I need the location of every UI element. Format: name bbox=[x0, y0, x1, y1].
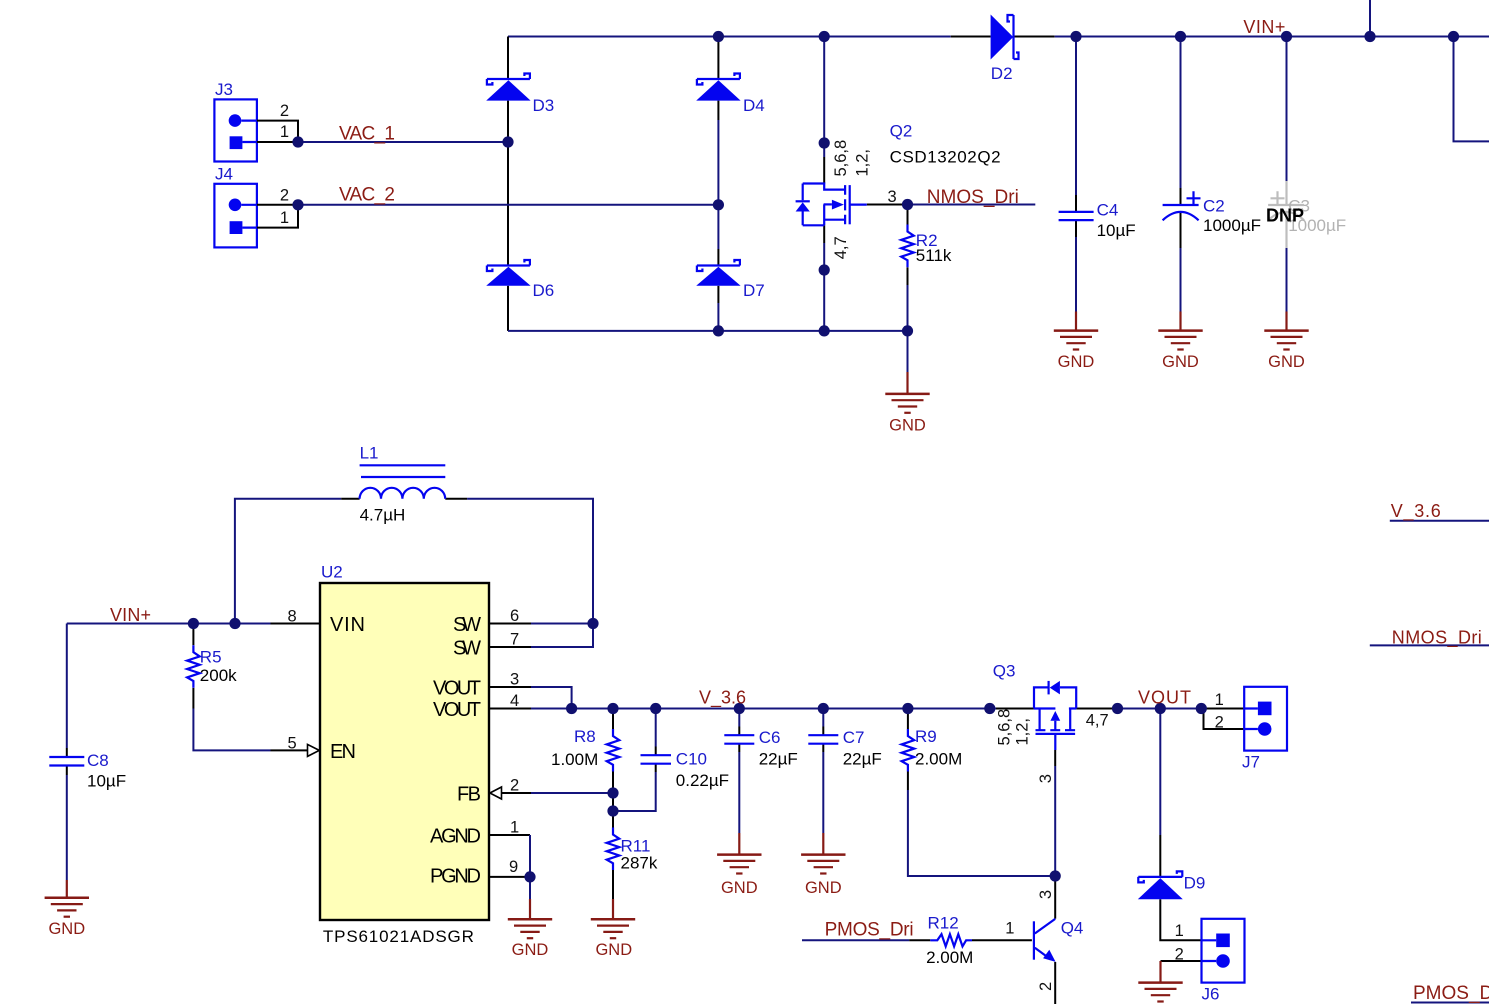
wire C4 column bbox=[1075, 37, 1077, 331]
wire Q3 gate column bbox=[1054, 750, 1056, 876]
wire VIN+ corner to right edge bbox=[1454, 37, 1489, 142]
node VIN L1 bbox=[229, 618, 240, 629]
wire PGND pin 9 bbox=[489, 876, 530, 878]
wire C6 column bbox=[738, 709, 740, 855]
node SW L1 bbox=[587, 618, 598, 629]
connector J3 bbox=[214, 99, 257, 161]
wire GND bus stub bbox=[907, 331, 909, 394]
wire Q2 drain column bbox=[823, 37, 825, 184]
wire AGND pin 1 bbox=[489, 835, 530, 919]
svg-text:GND: GND bbox=[889, 416, 926, 434]
capacitor C7 bbox=[808, 735, 838, 744]
node VOUT Q3 bbox=[1112, 703, 1123, 714]
svg-text:22µF: 22µF bbox=[759, 750, 798, 769]
svg-text:D4: D4 bbox=[743, 96, 765, 115]
svg-text:GND: GND bbox=[1162, 353, 1199, 371]
svg-text:287k: 287k bbox=[621, 853, 658, 872]
wire VOUT pin 3 jog bbox=[489, 687, 572, 709]
node V36 R8 bbox=[607, 703, 618, 714]
svg-text:4: 4 bbox=[510, 692, 519, 710]
node VAC_2 at J4 bbox=[292, 199, 303, 210]
capacitor C6 bbox=[724, 735, 754, 744]
svg-text:EN: EN bbox=[330, 741, 356, 763]
svg-text:SW: SW bbox=[453, 637, 481, 659]
resistor R8 bbox=[607, 729, 620, 772]
svg-text:Q4: Q4 bbox=[1061, 919, 1084, 938]
svg-text:1.00M: 1.00M bbox=[551, 750, 598, 769]
node Q2 drain bbox=[819, 137, 830, 148]
svg-text:D6: D6 bbox=[533, 281, 555, 300]
inductor L1 bbox=[360, 465, 446, 499]
wire C2 column bbox=[1180, 37, 1182, 331]
svg-text:5: 5 bbox=[288, 734, 297, 752]
node top bus C3 bbox=[1281, 31, 1292, 42]
ground GND (bus) bbox=[885, 394, 929, 413]
svg-text:0.22µF: 0.22µF bbox=[676, 771, 729, 790]
node VOUT34 bbox=[566, 703, 577, 714]
svg-text:4,7: 4,7 bbox=[832, 236, 850, 259]
svg-text:Q2: Q2 bbox=[890, 121, 913, 140]
svg-text:VOUT: VOUT bbox=[1138, 687, 1191, 707]
wire Q4 collector stub bbox=[1054, 876, 1056, 919]
wire bridge left column bbox=[507, 37, 509, 331]
svg-text:R8: R8 bbox=[574, 727, 596, 746]
wire Q4 emitter bbox=[1054, 962, 1056, 1004]
ground GND (C7) bbox=[801, 855, 845, 874]
node V36 R9 bbox=[902, 703, 913, 714]
svg-text:C7: C7 bbox=[843, 728, 865, 747]
svg-text:R5: R5 bbox=[200, 648, 222, 667]
node bus Q2 bbox=[819, 325, 830, 336]
wire J3 pin2 bbox=[257, 121, 298, 142]
ground GND (C3) bbox=[1264, 331, 1308, 350]
svg-text:GND: GND bbox=[48, 920, 85, 938]
wire VIN+ top bus bbox=[508, 36, 1489, 38]
transistor Q3 bbox=[1034, 681, 1076, 750]
svg-text:PMOS_Dri: PMOS_Dri bbox=[1413, 983, 1489, 1004]
node top bus D4 bbox=[713, 31, 724, 42]
svg-text:2: 2 bbox=[1037, 982, 1055, 991]
node top bus C4 bbox=[1070, 31, 1081, 42]
capacitor C3 (DNP) bbox=[1268, 191, 1304, 220]
svg-text:511k: 511k bbox=[916, 246, 952, 265]
node FB bbox=[607, 787, 618, 798]
wire R9 branch bbox=[908, 709, 1055, 877]
node VIN R5 bbox=[188, 618, 199, 629]
ground GND (PGND) bbox=[508, 919, 552, 938]
diode D6 bbox=[486, 260, 530, 286]
svg-text:8: 8 bbox=[288, 608, 297, 626]
node top bus Q2 bbox=[819, 31, 830, 42]
wire net VAC_2 bbox=[298, 204, 718, 206]
svg-text:1: 1 bbox=[280, 123, 289, 141]
svg-text:10µF: 10µF bbox=[87, 772, 126, 791]
svg-text:NMOS_Dri: NMOS_Dri bbox=[927, 187, 1019, 208]
svg-text:VOUT: VOUT bbox=[433, 677, 481, 699]
capacitor C10 bbox=[641, 755, 672, 764]
resistor R12 bbox=[930, 934, 972, 946]
svg-text:9: 9 bbox=[509, 858, 518, 876]
node VAC_1 at bridge bbox=[502, 136, 513, 147]
svg-text:R9: R9 bbox=[915, 727, 937, 746]
node top bus riser bbox=[1364, 31, 1375, 42]
wire net V_3.6 bbox=[489, 708, 1034, 710]
node VOUT J7 bbox=[1196, 703, 1207, 714]
diode D4 bbox=[696, 74, 740, 101]
capacitor C4 bbox=[1059, 212, 1094, 220]
svg-text:6: 6 bbox=[510, 607, 519, 625]
svg-text:1: 1 bbox=[1005, 920, 1014, 938]
svg-text:GND: GND bbox=[805, 879, 842, 897]
diode D7 bbox=[696, 260, 740, 286]
svg-text:1,2,: 1,2, bbox=[853, 149, 871, 177]
wire net NMOS_Dri bbox=[867, 204, 1036, 206]
ground GND (C2) bbox=[1158, 331, 1202, 350]
node top bus corner bbox=[1448, 31, 1459, 42]
svg-text:L1: L1 bbox=[360, 444, 379, 463]
diode D3 bbox=[486, 74, 530, 101]
wire J7 pin2 bbox=[1204, 709, 1245, 730]
svg-text:V_3.6: V_3.6 bbox=[1391, 501, 1441, 522]
node VAC_2 at bridge bbox=[713, 199, 724, 210]
transistor Q4 bbox=[1034, 919, 1056, 962]
svg-text:NMOS_Dri: NMOS_Dri bbox=[1392, 627, 1482, 648]
wire J4 pin1 bbox=[257, 205, 298, 228]
wire bridge right column bbox=[717, 37, 719, 331]
node bus D7 bbox=[713, 325, 724, 336]
svg-text:D9: D9 bbox=[1184, 873, 1206, 892]
svg-text:R12: R12 bbox=[928, 913, 959, 932]
node bus R2 bbox=[902, 325, 913, 336]
svg-text:VIN+: VIN+ bbox=[110, 605, 151, 625]
svg-text:J4: J4 bbox=[215, 164, 233, 183]
wire C10 column bbox=[613, 709, 656, 812]
op-amp U2 body (IC TPS61021ADSGR) bbox=[320, 583, 489, 920]
svg-text:VIN: VIN bbox=[330, 614, 365, 636]
resistor R9 bbox=[902, 729, 915, 772]
wire net PMOS_Dri right flag bbox=[1411, 1002, 1489, 1004]
capacitor C8 bbox=[49, 757, 84, 766]
svg-text:2.00M: 2.00M bbox=[915, 750, 962, 769]
node V36 C7 bbox=[818, 703, 829, 714]
wire J4 pin2 bbox=[257, 204, 298, 206]
wire C7 column bbox=[822, 709, 824, 855]
svg-text:5,6,8: 5,6,8 bbox=[995, 709, 1013, 746]
wire net NMOS_Dri right flag bbox=[1370, 644, 1489, 646]
wire Q2 source column bbox=[823, 225, 825, 331]
ground GND (C4) bbox=[1054, 331, 1098, 350]
svg-text:1000µF: 1000µF bbox=[1203, 216, 1261, 235]
svg-text:Q3: Q3 bbox=[993, 661, 1016, 680]
pin EN input triangle bbox=[308, 744, 320, 756]
wire net PMOS_Dri bbox=[802, 939, 1032, 941]
svg-text:VIN+: VIN+ bbox=[1243, 17, 1285, 37]
wire L1 left branch bbox=[235, 499, 360, 624]
svg-text:C4: C4 bbox=[1097, 201, 1119, 220]
svg-text:V_3.6: V_3.6 bbox=[699, 687, 746, 708]
svg-text:2: 2 bbox=[280, 102, 289, 120]
svg-text:2.00M: 2.00M bbox=[926, 948, 973, 967]
svg-text:2: 2 bbox=[1175, 945, 1184, 963]
wire SW pin 6 bbox=[489, 623, 593, 625]
transistor Q2 bbox=[796, 184, 867, 226]
svg-text:3: 3 bbox=[1037, 774, 1055, 783]
wire net VIN+ (left) bbox=[67, 623, 320, 625]
svg-text:200k: 200k bbox=[200, 666, 237, 685]
svg-text:4,7: 4,7 bbox=[1086, 712, 1109, 730]
svg-text:SW: SW bbox=[453, 614, 481, 636]
svg-text:C2: C2 bbox=[1203, 197, 1225, 216]
svg-text:VOUT: VOUT bbox=[433, 699, 481, 721]
wire FB pin 2 bbox=[502, 792, 614, 794]
svg-text:GND: GND bbox=[721, 879, 758, 897]
svg-text:2: 2 bbox=[1215, 714, 1224, 732]
svg-text:FB: FB bbox=[457, 783, 481, 805]
svg-text:2: 2 bbox=[280, 187, 289, 205]
svg-text:VAC_1: VAC_1 bbox=[339, 123, 395, 144]
svg-text:22µF: 22µF bbox=[843, 750, 882, 769]
svg-text:GND: GND bbox=[1268, 353, 1305, 371]
wire C8 column bbox=[66, 624, 68, 898]
svg-text:5,6,8: 5,6,8 bbox=[832, 140, 850, 177]
connector J4 bbox=[214, 184, 257, 248]
svg-text:C8: C8 bbox=[87, 751, 109, 770]
svg-text:3: 3 bbox=[510, 670, 519, 688]
svg-text:CSD13202Q2: CSD13202Q2 bbox=[890, 148, 1001, 167]
wire J6 pin2 to ground bbox=[1161, 961, 1202, 983]
wire L1 right branch to SW bbox=[445, 499, 593, 647]
svg-text:C10: C10 bbox=[676, 750, 707, 769]
wire J3 pin1 bbox=[257, 141, 298, 143]
diode D9 bbox=[1138, 871, 1183, 899]
node VOUT D9 bbox=[1155, 703, 1166, 714]
node top bus C2 bbox=[1175, 31, 1186, 42]
ground GND (J6) bbox=[1138, 983, 1182, 1002]
svg-text:VAC_2: VAC_2 bbox=[339, 185, 395, 206]
svg-text:7: 7 bbox=[510, 630, 519, 648]
node V36 C6 bbox=[734, 703, 745, 714]
svg-text:DNP: DNP bbox=[1266, 206, 1304, 226]
node NMOS_Dri R2 bbox=[902, 199, 913, 210]
ground GND (R11) bbox=[591, 919, 635, 938]
svg-text:PGND: PGND bbox=[430, 865, 481, 887]
resistor R11 bbox=[607, 828, 620, 871]
svg-text:GND: GND bbox=[1058, 353, 1095, 371]
svg-text:GND: GND bbox=[595, 941, 632, 959]
wire net VAC_1 bbox=[298, 141, 508, 143]
wire net V_3.6 right flag bbox=[1390, 520, 1489, 522]
svg-text:TPS61021ADSGR: TPS61021ADSGR bbox=[323, 927, 474, 946]
svg-text:3: 3 bbox=[1037, 890, 1055, 899]
node Q2 source bbox=[819, 264, 830, 275]
svg-text:2: 2 bbox=[510, 776, 519, 794]
wire D9 column bbox=[1160, 709, 1201, 941]
svg-text:GND: GND bbox=[512, 941, 549, 959]
node R11 C10 bbox=[607, 805, 618, 816]
resistor R2 bbox=[901, 225, 914, 268]
resistor R5 bbox=[187, 645, 200, 688]
svg-text:U2: U2 bbox=[321, 563, 343, 582]
node VAC_1 at J3 bbox=[292, 136, 303, 147]
capacitor C2 bbox=[1163, 191, 1201, 220]
wire R2 to GND bus bbox=[907, 205, 909, 331]
svg-text:10µF: 10µF bbox=[1097, 221, 1136, 240]
svg-text:4.7µH: 4.7µH bbox=[360, 505, 406, 524]
svg-text:J6: J6 bbox=[1202, 984, 1220, 1003]
connector J7 bbox=[1244, 687, 1287, 751]
svg-text:1: 1 bbox=[1215, 691, 1224, 709]
svg-text:1,2,: 1,2, bbox=[1013, 718, 1031, 746]
svg-text:1: 1 bbox=[1175, 922, 1184, 940]
wire Q3 to VOUT bbox=[1076, 708, 1244, 710]
svg-text:1: 1 bbox=[510, 818, 519, 836]
diode D2 bbox=[991, 15, 1019, 60]
svg-text:PMOS_Dri: PMOS_Dri bbox=[825, 919, 914, 940]
node V36 Q3 bbox=[984, 703, 995, 714]
svg-text:C6: C6 bbox=[759, 728, 781, 747]
wire C3 column (DNP gray stubs) bbox=[1286, 37, 1288, 331]
wire bottom GND bus bbox=[508, 330, 908, 332]
svg-text:J3: J3 bbox=[215, 80, 233, 99]
svg-text:AGND: AGND bbox=[430, 825, 481, 847]
pin FB input triangle bbox=[490, 787, 502, 799]
ground GND (C8) bbox=[45, 898, 89, 917]
svg-text:D7: D7 bbox=[743, 281, 765, 300]
wire R5 to EN bbox=[193, 624, 307, 751]
wire R8 R11 column bbox=[612, 709, 614, 920]
node Q3 gate Q4 bbox=[1050, 870, 1061, 881]
svg-text:D3: D3 bbox=[533, 96, 555, 115]
ground GND (C6) bbox=[717, 855, 761, 874]
node PGND bbox=[524, 871, 535, 882]
svg-text:J7: J7 bbox=[1242, 752, 1260, 771]
wire vertical to top edge bbox=[1369, 0, 1371, 37]
node V36 C10 bbox=[650, 703, 661, 714]
svg-text:3: 3 bbox=[888, 188, 897, 206]
svg-text:1: 1 bbox=[280, 209, 289, 227]
connector J6 bbox=[1202, 919, 1245, 983]
svg-text:D2: D2 bbox=[991, 64, 1013, 83]
